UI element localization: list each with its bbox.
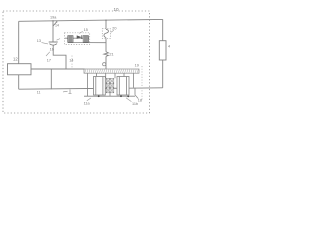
junction dot b xyxy=(120,95,122,97)
svg-text:11: 11 xyxy=(37,91,41,95)
wire capacitor to node L-run xyxy=(53,45,66,69)
wire bottom return rail xyxy=(19,88,163,89)
pigtail loop 22 xyxy=(103,63,106,66)
wire thermal branch from top rail xyxy=(105,20,107,29)
coil frame right xyxy=(117,77,129,96)
terminal mark on return rail xyxy=(63,90,68,93)
resistor R right (outside enclosure) xyxy=(162,19,164,40)
label 11a with leader xyxy=(87,98,91,101)
svg-text:18: 18 xyxy=(138,99,142,103)
junction dot a xyxy=(98,95,100,97)
coil frame left xyxy=(94,77,106,96)
wire from box 12 to node xyxy=(31,68,85,70)
svg-text:17: 17 xyxy=(47,59,51,63)
svg-text:21: 21 xyxy=(109,53,113,57)
dashed partial box 19 left edge xyxy=(71,56,73,70)
bottom rail of relay xyxy=(84,95,135,97)
winding cross-section stack xyxy=(106,78,114,96)
switch blade 14 on branch xyxy=(53,22,57,26)
junction dot rail/branch xyxy=(52,20,53,21)
diode D (filled) xyxy=(77,35,82,39)
svg-text:14: 14 xyxy=(69,58,73,62)
junction dot c xyxy=(127,96,129,98)
box 12 (left block) xyxy=(8,64,32,75)
wire top rail xyxy=(19,19,163,21)
wire branch down to return rail xyxy=(50,69,52,89)
svg-text:19a: 19a xyxy=(50,15,57,19)
wire thermal branch lower xyxy=(105,38,107,52)
dashed partial box 19 right edge xyxy=(141,66,143,100)
wire to armature bar xyxy=(105,56,107,69)
dashed box 15 (rectifier unit) xyxy=(64,33,89,45)
wire box bottom out to right xyxy=(68,42,106,44)
resistor in box (right, hatched) xyxy=(83,36,88,43)
svg-text:16: 16 xyxy=(50,47,54,51)
wire left rail xyxy=(18,21,20,63)
capacitor 13 flat plate xyxy=(49,41,58,43)
capacitor 13 curved plate xyxy=(49,44,57,45)
svg-text:10: 10 xyxy=(114,7,120,12)
svg-text:14: 14 xyxy=(55,24,59,28)
label 11b with leader xyxy=(126,98,131,102)
leader arrow at box left xyxy=(57,39,61,41)
coil squiggle 21 on branch xyxy=(104,52,109,57)
resistor in box (left, hatched) xyxy=(68,36,73,43)
outer dashed enclosure 10 xyxy=(3,11,150,113)
svg-text:20: 20 xyxy=(112,27,116,31)
svg-text:19: 19 xyxy=(135,64,139,68)
svg-text:11b: 11b xyxy=(132,102,138,106)
legs from bar xyxy=(88,73,134,96)
svg-text:11a: 11a xyxy=(84,102,91,106)
wire capacitor branch from top rail xyxy=(52,21,54,42)
S element inside box 20 xyxy=(104,29,108,37)
armature hatched bar xyxy=(84,69,139,73)
dashed box 20 (thermal element) xyxy=(102,29,110,39)
wire inside box (top) xyxy=(65,37,89,39)
svg-text:4: 4 xyxy=(168,45,170,49)
svg-text:12: 12 xyxy=(13,57,18,62)
svg-text:13: 13 xyxy=(37,39,41,43)
contact arm 18 with leader xyxy=(134,88,136,95)
svg-text:15: 15 xyxy=(84,28,88,32)
